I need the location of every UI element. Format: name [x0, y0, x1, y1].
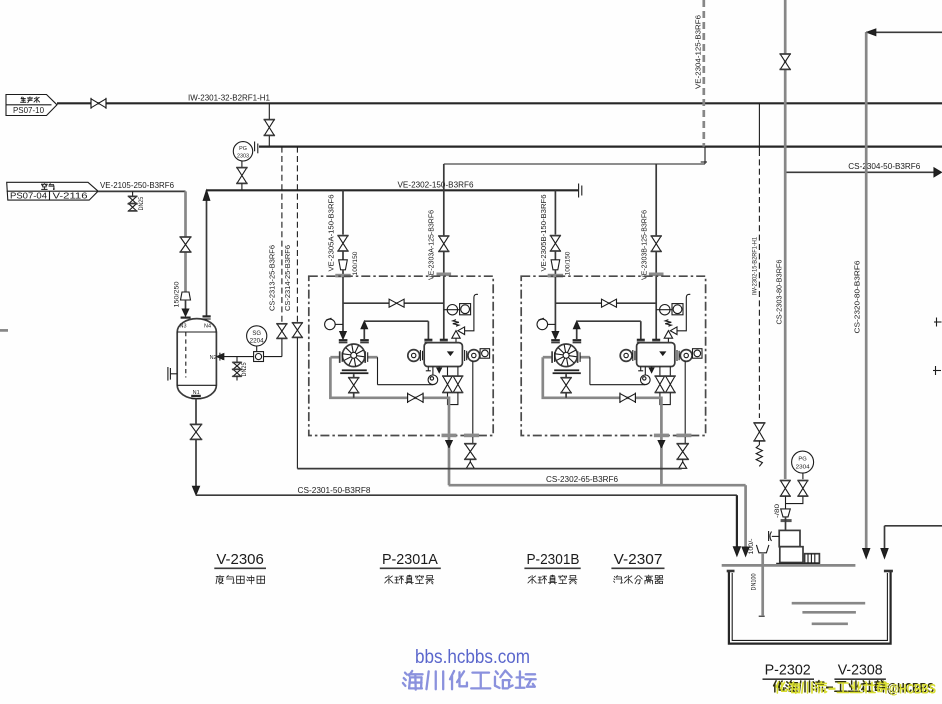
svg-text:DN25: DN25: [138, 197, 145, 211]
valve separator drain 1 A: [442, 367, 453, 393]
svg-text:bbs.hcbbs.com: bbs.hcbbs.com: [415, 647, 530, 668]
pipe VE-2302-150-B3RF6 suction header: [207, 189, 579, 191]
svg-text:SG: SG: [252, 331, 261, 337]
valve on VE-2305A: [337, 236, 348, 251]
separator vessel V A: [424, 343, 462, 367]
pipe DN100 dip into tank: [759, 553, 765, 616]
pipe discharge to separator B: [577, 321, 641, 339]
pipe from right edge y526 into tank: [881, 526, 942, 558]
svg-text:N4: N4: [204, 323, 211, 329]
flange pump inlet A: [339, 340, 348, 342]
port pump right A: [365, 351, 377, 363]
port pump right B: [578, 351, 590, 363]
instrument square at separator top B: [672, 304, 683, 315]
svg-text:CS-2302-65-B3RF6: CS-2302-65-B3RF6: [546, 475, 619, 484]
pipe VE-2305B drop: [554, 190, 556, 234]
label CS-2314-25-B3RF6: [283, 245, 292, 311]
pump P-2301B liquid-ring vacuum pump: [555, 344, 578, 367]
water level line 3: [812, 622, 848, 625]
label CS-2320-80-B3RF6: [852, 261, 861, 334]
flange separator inlet B: [637, 340, 645, 342]
pipe VE-2302 branch (line B): [259, 146, 942, 148]
wire to CS-2302 header A: [446, 437, 453, 485]
label CS-2303-80-B3RF6: [775, 260, 784, 325]
wire reducer to box A: [342, 270, 344, 277]
valve on CS-2313: [276, 324, 287, 357]
wire reducer to box B: [554, 270, 556, 277]
pipe IW-2301-32-B2RF1-H1 (line A): [57, 102, 942, 104]
nozzle N2: [210, 353, 224, 361]
valve below box outlet B: [677, 437, 689, 468]
svg-text:VE-2304-125-B3RF6: VE-2304-125-B3RF6: [693, 15, 702, 89]
pipe separator outlet drop B: [684, 361, 686, 434]
relief valve PSV B: [664, 320, 677, 343]
pipe N4 riser to header: [203, 190, 210, 316]
svg-text:IW-2302-15-B2RF1-H1: IW-2302-15-B2RF1-H1: [751, 237, 758, 295]
pipe CS-2302 downleg to tank: [742, 485, 749, 556]
separator right end port B: [677, 350, 692, 362]
svg-text:100/150: 100/150: [352, 251, 359, 275]
svg-text:-/80: -/80: [774, 503, 781, 518]
funnel drain air gap: [756, 545, 769, 553]
flange pump discharge top B: [573, 340, 582, 342]
level mark inside separator B: [660, 352, 665, 355]
pipe air line vertical to vessel: [184, 191, 187, 292]
valve PG branch block: [797, 481, 808, 497]
label P-2301B: [524, 551, 580, 584]
label DN25 (air line): [138, 197, 145, 211]
valve on bypass A: [389, 299, 404, 307]
flange tick at box top for VE-2303A: [437, 273, 452, 277]
svg-text:PS07-10: PS07-10: [13, 105, 44, 115]
pipe CS-2304-50 with arrow: [785, 168, 941, 177]
flange tick at box top A: [335, 274, 350, 278]
wire pump seal line B: [590, 357, 645, 385]
pipe CS-2314 dashed: [296, 147, 298, 323]
pump base A: [340, 369, 368, 374]
valve on drain circuit B: [620, 393, 636, 404]
valve on VE-2305B: [550, 236, 561, 251]
label V-2308: [834, 662, 886, 680]
valve on CS-2314: [292, 323, 303, 338]
valve separator drain 2 A: [453, 367, 464, 393]
pipe relief discharge A: [465, 294, 478, 331]
watermark yellow community: [774, 681, 936, 697]
flange tick box bottom 2 B: [676, 434, 691, 438]
reducer 150/250: [181, 292, 191, 300]
pipe CS-2314 lower: [296, 337, 298, 468]
relief valve PSV A: [452, 320, 465, 343]
label VE-2305A-150-B3RF6: [327, 195, 336, 272]
svg-text:V-2308: V-2308: [838, 662, 883, 679]
pipe pump drain circuit A: [330, 357, 449, 434]
sight glass: [254, 352, 264, 362]
label P-2302: [763, 662, 815, 680]
label VE-2105-250-B3RF6: [100, 181, 175, 190]
pipe VE-2304 vertical (dashed): [702, 0, 705, 147]
package boundary P-2301B: [521, 276, 705, 435]
label V-2306: [214, 551, 266, 584]
tap ticks at PG-2303: [255, 142, 258, 154]
label 100/150 A: [352, 251, 359, 275]
valve on V-2306 drain: [190, 424, 202, 439]
svg-text:V-2306: V-2306: [216, 551, 264, 568]
pump P-2301A liquid-ring vacuum pump: [342, 344, 365, 367]
valve separator drain 1 B: [655, 367, 666, 393]
node PS07-04 / V-2116 source flag (air): [7, 182, 98, 200]
label IW-2302-15-B2RF1-H1: [751, 237, 758, 295]
separator bottom stubs B: [638, 367, 654, 376]
pipe drain collection line y468.6: [297, 468, 681, 470]
pipe N2 to sight glass: [223, 356, 282, 358]
level gauge square B: [693, 349, 703, 359]
svg-text:N1: N1: [193, 390, 200, 396]
instrument circle at separator top A: [444, 305, 460, 315]
pump base B: [553, 369, 581, 374]
label DN25 (vessel drain): [241, 362, 248, 376]
label 150/250: [173, 281, 180, 307]
svg-text:CS-2301-50-B3RF8: CS-2301-50-B3RF8: [298, 486, 372, 495]
port pump left B: [543, 351, 555, 363]
wire pump seal line A: [378, 357, 433, 385]
pipe CS-2302-65 header: [449, 484, 746, 487]
pipe separator outlet drop A: [472, 361, 474, 434]
wire riser x705 line B to y164 line: [701, 147, 707, 164]
svg-text:2304: 2304: [796, 465, 811, 471]
steam trap B: [641, 375, 651, 385]
port pump left A: [330, 351, 342, 363]
wire to CS-2302 header B: [658, 437, 665, 485]
valve on line A: [91, 98, 106, 109]
svg-text:150/250: 150/250: [173, 281, 180, 307]
valve on drop x269: [264, 120, 275, 136]
svg-text:VE-2303B-125-B3RF6: VE-2303B-125-B3RF6: [640, 210, 649, 280]
reducer 100/150 B: [551, 260, 560, 270]
wire suction drop inside box B: [552, 277, 559, 339]
pipe VE-2303A drop: [443, 164, 445, 235]
label DN100: [751, 573, 758, 590]
pump P-2302 motor: [805, 554, 820, 563]
svg-text:N3: N3: [180, 323, 187, 329]
pipe discharge to separator A: [364, 321, 428, 339]
pipe CS-2301 downleg to tank: [733, 495, 740, 556]
vessel internal dip pipe: [185, 332, 187, 378]
label CS-2302-65-B3RF6: [546, 475, 619, 484]
tank grade line: [722, 564, 856, 567]
valve on VE-2303B: [651, 236, 662, 251]
level mark inside separator A: [448, 352, 453, 355]
instrument circle at separator top B: [656, 305, 672, 315]
label CS-2304-50-B3RF6: [848, 162, 921, 171]
pipe bypass B: [555, 302, 656, 304]
label V-2307: [611, 551, 664, 584]
pipe relief discharge B: [677, 294, 690, 331]
wire VE-2303B to box: [655, 252, 657, 277]
stub at right edge y322: [934, 318, 942, 327]
pipe from air flag: [98, 190, 185, 192]
pump suction fitting: [769, 531, 780, 541]
svg-text:VE-2305A-150-B3RF6: VE-2305A-150-B3RF6: [327, 195, 336, 272]
valve on drain circuit A: [408, 393, 424, 404]
separator bottom stubs A: [426, 367, 442, 376]
node PS07-10 source flag (production water): [6, 95, 57, 116]
wire VE-2303A inside box: [443, 276, 445, 339]
pipe VE-2303B drop: [655, 164, 657, 235]
flange tick at N3: [181, 317, 191, 319]
svg-text:PG: PG: [798, 457, 807, 463]
wire valve to reducer B: [554, 251, 556, 260]
svg-text:100/150: 100/150: [565, 251, 572, 275]
wire drop from line A to line B at x269: [268, 103, 270, 146]
nozzle N5: [168, 367, 177, 381]
svg-text:CS-2304-50-B3RF6: CS-2304-50-B3RF6: [848, 162, 921, 171]
flange above pump: [781, 517, 792, 531]
separator left end port A: [408, 350, 423, 362]
separator right end port A: [465, 350, 480, 362]
wire drain collect A: [448, 393, 458, 405]
flange tick box bottom 1 A: [442, 434, 457, 438]
valve CS-2303 block: [780, 481, 791, 497]
nozzle N1: [191, 390, 201, 399]
valve separator drain 2 B: [665, 367, 676, 393]
label 100/150 B: [565, 251, 572, 275]
flange tick at box top for VE-2303B: [649, 273, 664, 277]
valve on bypass B: [602, 299, 617, 307]
wire VE-2303A to box: [443, 252, 445, 277]
svg-text:PG: PG: [239, 146, 247, 152]
svg-text:2303: 2303: [237, 154, 249, 160]
svg-text:V-2116: V-2116: [53, 191, 89, 201]
valve on IW-2302: [753, 423, 765, 445]
label VE-2303B-125-B3RF6: [640, 210, 649, 280]
instrument gauge PI A: [325, 318, 343, 330]
svg-text:VE-2305B-150-B3RF6: VE-2305B-150-B3RF6: [539, 195, 548, 272]
svg-text:100/-: 100/-: [748, 539, 755, 555]
flange separator inlet A: [424, 340, 432, 342]
label 100/-: [748, 539, 755, 555]
water level line 2: [802, 611, 856, 614]
reducer -/80 above pump: [781, 509, 791, 517]
package boundary P-2301A: [309, 276, 493, 435]
stub at left edge y330: [0, 329, 8, 332]
pipe CS-2303 vertical: [784, 0, 787, 479]
valve on CS-2303 top: [780, 54, 791, 69]
flange pump discharge top A: [360, 340, 369, 342]
pipe CS-2313 dashed: [281, 147, 283, 324]
svg-text:VE-2105-250-B3RF6: VE-2105-250-B3RF6: [100, 181, 175, 190]
svg-text:P-2301A: P-2301A: [382, 551, 438, 568]
valve pair DN25 below N2 line: [232, 357, 241, 381]
valve below box outlet A: [464, 437, 476, 468]
water level line 1: [792, 602, 866, 605]
label IW-2301-32-B2RF1-H1: [188, 94, 271, 103]
svg-text:P-2302: P-2302: [765, 662, 811, 679]
wire valve outlet jog: [786, 497, 803, 509]
steam trap A: [428, 375, 438, 385]
tank V-2308 inner wall: [732, 573, 887, 640]
separator vessel V B: [637, 343, 675, 367]
watermark bbs.hcbbs.com: [415, 647, 530, 668]
svg-text:CS-2320-80-B3RF6: CS-2320-80-B3RF6: [852, 261, 861, 334]
label VE-2305B-150-B3RF6: [539, 195, 548, 272]
valve on VE-2303A: [438, 236, 449, 251]
wire PG-2304 to valve: [802, 473, 804, 479]
instrument SG-2204: [247, 326, 267, 352]
instrument PG-2303: [233, 142, 252, 161]
pipe drain to CS-2301 header: [193, 439, 200, 494]
instrument square at separator top A: [460, 304, 471, 315]
flange tick box bottom 1 B: [654, 434, 669, 438]
instrument PG-2304: [792, 451, 814, 473]
svg-text:VE-2303A-125-B3RF6: VE-2303A-125-B3RF6: [427, 210, 436, 280]
svg-text:DN100: DN100: [751, 573, 758, 590]
flange tick box bottom 2 A: [464, 434, 479, 438]
label N3: [180, 323, 187, 329]
label CS-2313-25-B3RF6: [267, 245, 276, 311]
tank wall cap left: [727, 570, 735, 573]
flange separator VE-2303 nozzle A: [440, 340, 448, 342]
tank wall cap right: [884, 570, 893, 573]
flange tick at box top B: [548, 274, 563, 278]
svg-text:DN25: DN25: [241, 362, 248, 376]
separator left end port B: [620, 350, 635, 362]
instrument gauge PI B: [537, 318, 555, 330]
pump P-2302 body: [779, 530, 803, 562]
label -/80: [774, 503, 781, 518]
svg-text:CS-2303-80-B3RF6: CS-2303-80-B3RF6: [775, 260, 784, 325]
pipe VE-2305A drop: [342, 190, 344, 234]
pipe bypass A: [343, 302, 444, 304]
wire suction drop inside box A: [340, 277, 347, 339]
pipe pump drain circuit B: [543, 357, 662, 434]
svg-text:P-2301B: P-2301B: [526, 551, 579, 568]
svg-text:CS-2314-25-B3RF6: CS-2314-25-B3RF6: [283, 245, 292, 311]
label VE-2304-125-B3RF6: [693, 15, 702, 89]
pipe discharge link y164: [444, 163, 705, 165]
reducer 100/150 A: [339, 260, 348, 270]
svg-text:CS-2313-25-B3RF6: CS-2313-25-B3RF6: [267, 245, 276, 311]
valve on air vertical: [180, 237, 192, 252]
wire valve to reducer A: [342, 251, 344, 260]
svg-text:N2: N2: [210, 355, 217, 361]
label VE-2302-150-B3RF6: [398, 180, 475, 189]
label CS-2301-50-B3RF8: [298, 486, 372, 495]
tank V-2308 outer wall: [729, 571, 891, 644]
watermark hcbbs forum: [403, 671, 536, 690]
seal loop spring on IW-2302: [756, 445, 762, 466]
vessel V-2306 shell: [177, 319, 216, 399]
flange separator VE-2303 nozzle B: [652, 340, 660, 342]
level gauge square A: [480, 349, 490, 359]
wire VE-2303B inside box: [655, 276, 657, 339]
pipe discharge riser A: [361, 321, 368, 340]
stub at right edge y370: [933, 366, 941, 375]
svg-text:VE-2302-150-B3RF6: VE-2302-150-B3RF6: [398, 180, 475, 189]
svg-text:2204: 2204: [250, 338, 265, 344]
valve below PG-2303: [236, 161, 247, 190]
label P-2301A: [380, 551, 441, 584]
end cap of suction header: [579, 184, 582, 198]
pipe CS-2301-50 header: [196, 494, 737, 496]
pipe V-2306 drain: [195, 399, 197, 425]
svg-text:PS07-04: PS07-04: [10, 191, 47, 201]
svg-text:@HCBBS: @HCBBS: [889, 682, 936, 697]
nozzle N4: [203, 316, 212, 329]
valve pair DN25 on air line: [128, 191, 137, 211]
svg-text:IW-2301-32-B2RF1-H1: IW-2301-32-B2RF1-H1: [188, 94, 271, 103]
svg-text:V-2307: V-2307: [614, 551, 663, 568]
valve pump drain A: [348, 374, 359, 398]
flange pump inlet B: [551, 340, 560, 342]
wire reducer to vessel nozzle: [182, 300, 189, 316]
pipe CS-2320 from right edge: [863, 29, 942, 558]
valve pump drain B: [560, 374, 571, 398]
pump P-2302 base: [776, 563, 819, 565]
wire drain collect B: [660, 393, 670, 405]
pipe IW-2302 vertical: [758, 103, 760, 418]
pipe discharge riser B: [573, 321, 580, 340]
label VE-2303A-125-B3RF6: [427, 210, 436, 280]
